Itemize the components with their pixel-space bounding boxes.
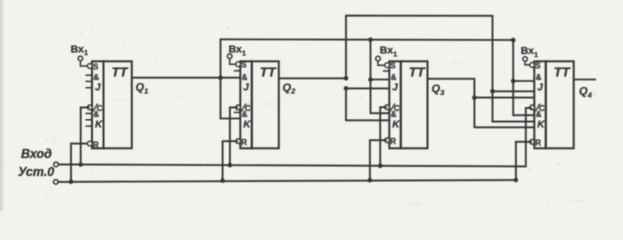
svg-text:R: R: [93, 140, 99, 149]
svg-text:TT: TT: [112, 65, 129, 80]
svg-text:J: J: [243, 83, 249, 94]
svg-text:S: S: [535, 61, 541, 70]
svg-text:&: &: [93, 110, 99, 119]
svg-text:J: J: [537, 83, 543, 94]
svg-text:&: &: [391, 73, 397, 82]
svg-text:&: &: [242, 73, 248, 82]
svg-text:TT: TT: [260, 65, 277, 80]
svg-text:TT: TT: [409, 65, 426, 80]
svg-text:&: &: [536, 110, 542, 119]
svg-text:K: K: [537, 120, 545, 131]
svg-text:R: R: [390, 137, 396, 146]
svg-text:K: K: [392, 120, 400, 131]
svg-text:S: S: [390, 62, 396, 71]
svg-text:R: R: [241, 138, 247, 147]
svg-text:&: &: [93, 73, 99, 82]
svg-text:&: &: [242, 110, 248, 119]
svg-text:TT: TT: [554, 65, 571, 80]
svg-text:K: K: [243, 120, 251, 131]
svg-text:J: J: [95, 83, 101, 94]
svg-text:S: S: [93, 63, 99, 72]
svg-text:J: J: [392, 83, 398, 94]
svg-text:Уст.0: Уст.0: [18, 165, 54, 179]
svg-text:&: &: [536, 73, 542, 82]
svg-text:S: S: [241, 61, 247, 70]
svg-text:&: &: [391, 110, 397, 119]
svg-text:K: K: [95, 120, 103, 131]
